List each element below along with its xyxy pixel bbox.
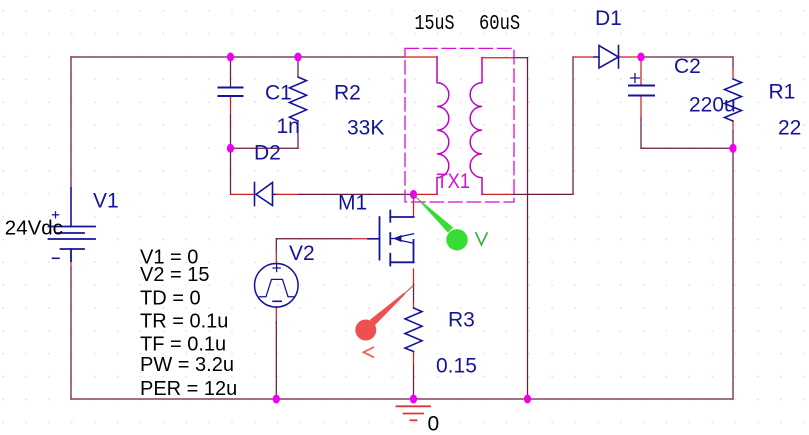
- wire right rail down: [732, 148, 734, 399]
- probe V green hairline: [414, 195, 422, 203]
- svg-text:R3: R3: [448, 309, 475, 332]
- mosfet M1 bulk arrow: [390, 234, 413, 243]
- capacitor C2 plus sign: [631, 74, 640, 83]
- transformer TX1 primary winding: [437, 57, 449, 194]
- wire V1 top lead: [70, 225, 72, 228]
- svg-text:R2: R2: [334, 81, 361, 104]
- battery V1 plus sign: [53, 212, 59, 218]
- wire secondary bottom horizontal: [514, 193, 574, 195]
- svg-text:TD = 0: TD = 0: [140, 287, 201, 309]
- wire TX1 secondary top lead red: [482, 57, 514, 59]
- wire C1 bottom lead: [230, 116, 232, 148]
- resistor R1: [725, 79, 742, 121]
- svg-text:C2: C2: [674, 55, 701, 78]
- svg-text:1n: 1n: [277, 115, 300, 138]
- wire D2 branch vertical: [230, 148, 232, 194]
- wire R3 top lead red: [413, 302, 415, 308]
- pulse source V2 plus sign: [273, 264, 280, 271]
- junction node top C1: [227, 53, 234, 62]
- svg-text:22: 22: [778, 117, 801, 140]
- wire D2 anode lead red: [276, 193, 299, 195]
- svg-text:0: 0: [428, 413, 440, 435]
- transformer TX1 secondary winding: [470, 58, 482, 195]
- wire R2 bottom lead: [297, 121, 299, 148]
- wire D2 anode blue nub: [273, 193, 277, 195]
- wire TX1 primary top lead red: [405, 56, 437, 58]
- wire V2 to bottom rail: [275, 322, 277, 399]
- wire R2 top lead: [297, 57, 299, 77]
- svg-text:M1: M1: [338, 192, 367, 215]
- diode D1: [599, 46, 619, 69]
- wire C2 bottom lead red: [640, 96, 642, 118]
- svg-text:PER = 12u: PER = 12u: [140, 378, 237, 400]
- wire V2 bottom lead red: [275, 307, 277, 322]
- resistor R3: [405, 308, 422, 352]
- probe I red hairline: [405, 285, 414, 293]
- svg-text:R1: R1: [769, 80, 796, 103]
- junction node top R2: [294, 53, 301, 62]
- junction node C2-R1 bottom: [729, 144, 736, 153]
- wire C2 bottom horizontal: [641, 147, 733, 149]
- svg-text:D2: D2: [254, 141, 281, 164]
- wire C1-R2 bottom link: [231, 147, 299, 149]
- label V probe: [476, 232, 488, 245]
- ground symbol: [397, 406, 431, 420]
- svg-text:TF = 0.1u: TF = 0.1u: [140, 334, 226, 356]
- wire secondary top to bottom rail horizontal: [514, 57, 528, 59]
- junction node secondary on rail: [524, 395, 531, 404]
- wire V2 top lead: [275, 239, 277, 252]
- wire D1 to R1 top: [641, 56, 733, 58]
- battery V1: [49, 227, 96, 262]
- svg-text:33K: 33K: [347, 116, 384, 139]
- battery V1 bottom lead red: [70, 261, 72, 268]
- wire R3 to bottom rail: [413, 366, 415, 399]
- wire secondary top vertical down: [527, 58, 529, 399]
- capacitor C1: [219, 88, 243, 97]
- svg-text:24Vdc: 24Vdc: [5, 216, 63, 239]
- wire C2 bottom lead: [640, 118, 642, 148]
- svg-text:0.15: 0.15: [436, 355, 477, 378]
- wire bottom rail: [71, 398, 733, 400]
- wire D2 cathode lead red: [231, 193, 255, 195]
- svg-text:PW = 3.2u: PW = 3.2u: [140, 354, 234, 376]
- pulse source V2 circle: [254, 264, 298, 308]
- wire M1 gate lead blue: [368, 238, 380, 240]
- pulse source V2 minus sign: [273, 300, 281, 302]
- wire D1 anode blue nub: [594, 56, 599, 58]
- battery V1 top lead blue: [70, 188, 72, 227]
- battery V1 minus sign: [53, 257, 60, 259]
- wire V2 top lead red: [275, 252, 277, 264]
- wire R1 top lead red: [732, 57, 734, 68]
- wire M1 source to R3: [413, 284, 415, 302]
- wire left rail lower: [70, 268, 72, 399]
- probe V green marker: [421, 202, 453, 233]
- svg-text:TR = 0.1u: TR = 0.1u: [140, 311, 228, 333]
- capacitor C2: [629, 86, 654, 96]
- svg-text:220u: 220u: [689, 94, 736, 117]
- wire D1 anode lead red: [573, 56, 594, 58]
- junction node V2 on rail: [273, 395, 280, 404]
- pulse source V2 trapezoid: [260, 279, 294, 296]
- probe I red marker: [370, 293, 405, 326]
- wire top rail: [71, 56, 405, 58]
- junction node D1-C2: [637, 53, 644, 62]
- wire M1 gate lead red: [352, 238, 368, 240]
- wire C1 top lead: [230, 57, 232, 87]
- wire left rail upper: [70, 57, 72, 188]
- wire R1 bottom lead red: [732, 121, 734, 131]
- svg-text:60uS: 60uS: [479, 12, 520, 36]
- wire D2 to TX1 node: [299, 193, 414, 195]
- junction node C1-R2 bottom: [227, 144, 234, 153]
- wire R3 bottom lead red: [413, 352, 415, 367]
- wire M1 drain lead red: [413, 194, 415, 217]
- diode D2: [255, 183, 273, 206]
- mosfet M1: [380, 211, 414, 266]
- svg-text:C1: C1: [265, 82, 292, 105]
- svg-text:D1: D1: [595, 7, 622, 30]
- wire TX1 primary bottom lead red: [414, 193, 438, 195]
- mosfet M1 arrowhead: [393, 235, 402, 242]
- wire TX1 secondary bottom lead red: [482, 193, 514, 195]
- junction node TX1 primary bottom: [410, 190, 417, 199]
- junction node R3 on rail: [410, 395, 417, 404]
- wire D1 cathode lead red: [619, 56, 642, 58]
- label current probe arrow: [364, 347, 375, 357]
- resistor R2: [290, 77, 307, 121]
- wire C1 bottom lead red: [230, 96, 232, 116]
- svg-text:15uS: 15uS: [415, 12, 455, 36]
- transformer TX1 dashed box: [405, 48, 514, 202]
- wire M1 source lead red: [413, 269, 415, 284]
- svg-text:TX1: TX1: [437, 170, 471, 193]
- svg-text:V2 = 15: V2 = 15: [140, 264, 210, 286]
- svg-text:V1: V1: [93, 190, 119, 213]
- wire M1 gate wire: [276, 238, 352, 240]
- wire R1 bottom to junction: [732, 131, 734, 148]
- wire C2 top lead red: [640, 57, 642, 85]
- svg-text:V2: V2: [289, 242, 315, 265]
- wire secondary bottom vertical up to D1: [572, 57, 574, 194]
